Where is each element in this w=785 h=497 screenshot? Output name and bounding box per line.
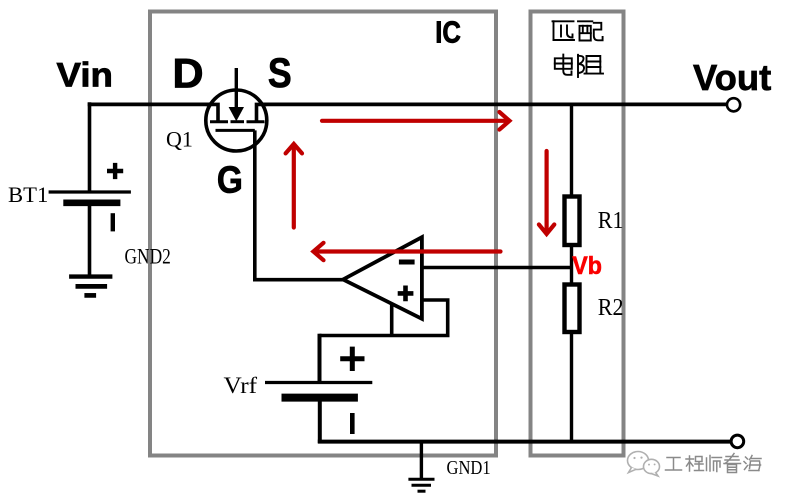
Vout terminal circle (727, 98, 740, 111)
看 (724, 454, 741, 464)
resistor R2 (565, 285, 580, 333)
Q1 gate plate (216, 129, 255, 132)
svg-text:Q1: Q1 (166, 127, 193, 152)
red arrow: feedback up (gate loop) (286, 144, 302, 228)
svg-text:Vrf: Vrf (224, 373, 259, 399)
Q1 body arrow (stub + arrowhead) (235, 68, 238, 109)
wire: Q1 gate down (253, 130, 257, 281)
ground GND1 (408, 479, 434, 491)
wire: R1 to R2 (Vb node) (570, 245, 573, 285)
wire: non-inverting input step (right then down) (422, 300, 448, 336)
label 匹 (box title char 1) (553, 21, 575, 40)
ground GND2 (69, 277, 112, 296)
wire: GND1 stem (420, 441, 423, 479)
svg-text:BT1: BT1 (8, 182, 48, 207)
matching-resistor box (匹配电阻) (531, 12, 624, 456)
red arrow: current down through R1 (539, 151, 554, 234)
svg-text:D: D (172, 50, 203, 97)
svg-text:R2: R2 (598, 294, 624, 321)
程 (686, 456, 694, 471)
watermark text 工程师看海 (666, 454, 762, 473)
wire: Vin down to BT1 + (88, 102, 92, 192)
Q1 drain bracket (206, 104, 218, 122)
svg-text:GND2: GND2 (125, 245, 171, 269)
wire: stub from triangle bottom edge down (390, 303, 394, 336)
wire: Vrf + lead (318, 334, 322, 383)
op-amp non-inverting input mark (+) (398, 286, 414, 302)
wire: inverting input to Vb node (422, 266, 573, 270)
svg-text:Vb: Vb (572, 252, 602, 280)
wire: bottom ground rail (318, 440, 731, 444)
svg-text:Vin: Vin (57, 57, 113, 94)
GND terminal circle (bottom right) (731, 435, 744, 448)
wire: BT1 - down to GND2 (88, 206, 92, 276)
svg-text:G: G (217, 159, 243, 201)
svg-text:GND1: GND1 (447, 457, 491, 479)
transistor Q1 body circle (206, 90, 267, 151)
label 阻 (box title char 4) (578, 55, 603, 77)
op-amp U1 triangle (343, 237, 422, 319)
battery BT1 (49, 163, 131, 232)
wire: horizontal to Vrf + (320, 334, 450, 338)
battery Vrf (265, 347, 372, 434)
red arrow: current from Q1 to matching resistors (right) (322, 112, 510, 130)
svg-text:Vout: Vout (693, 57, 771, 98)
海 (744, 457, 748, 470)
wire: Vrf - lead down (318, 402, 322, 444)
工 (666, 458, 682, 471)
wire: R2 down to ground rail (570, 332, 573, 443)
wire: Q1 source to Vout rail (257, 103, 728, 107)
IC box (150, 12, 496, 456)
svg-text:S: S (268, 50, 292, 96)
Q1 source bracket (257, 104, 267, 122)
label 电 (box title char 3) (555, 55, 572, 75)
wire: op-amp output to gate (253, 278, 344, 282)
op-amp inverting input mark (-) (399, 260, 415, 265)
Q1 channel bar segments (210, 120, 265, 123)
watermark logo (WeChat bubbles) (628, 452, 660, 477)
wire: Vout branch down through R1/R2 (570, 104, 573, 196)
wire: Vin rail to Q1 drain (88, 103, 218, 107)
svg-text:R1: R1 (598, 207, 624, 234)
svg-text:IC: IC (435, 16, 461, 50)
师 (707, 456, 711, 472)
red arrow: feedback to op-amp (left) (313, 243, 500, 260)
resistor R1 (565, 197, 580, 246)
label 配 (box title char 2) (578, 21, 603, 40)
